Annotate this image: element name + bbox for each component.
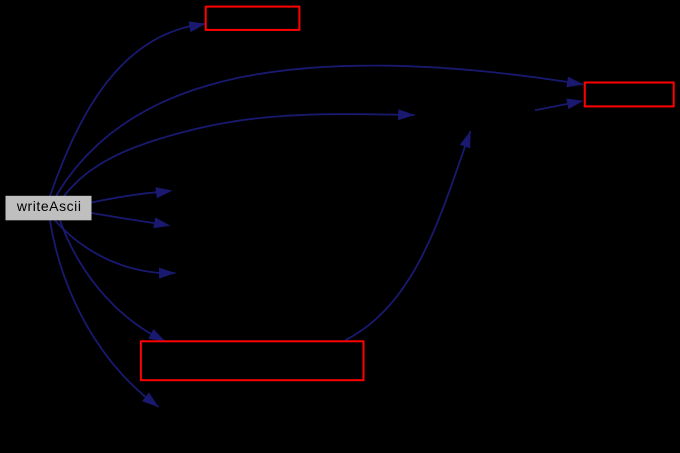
edge writeAscii to hidden node X [64,109,415,196]
node bottom box (red) [141,341,364,380]
edge hidden node X to right box [535,99,584,111]
edge writeAscii to bottom box [60,220,166,341]
edge writeAscii to hidden node B [92,187,173,202]
edge bottom box to hidden node X [345,131,470,340]
edge writeAscii to hidden node C [92,213,171,228]
node writeAscii [6,196,92,221]
edge writeAscii to right box [56,66,584,196]
node top box (red) [206,7,300,30]
node right box (red) [585,83,674,107]
edge writeAscii to hidden node D [55,220,176,278]
edge writeAscii to top box [50,21,206,196]
edge writeAscii to hidden node E [50,220,159,407]
svg-text:writeAscii: writeAscii [16,198,82,214]
